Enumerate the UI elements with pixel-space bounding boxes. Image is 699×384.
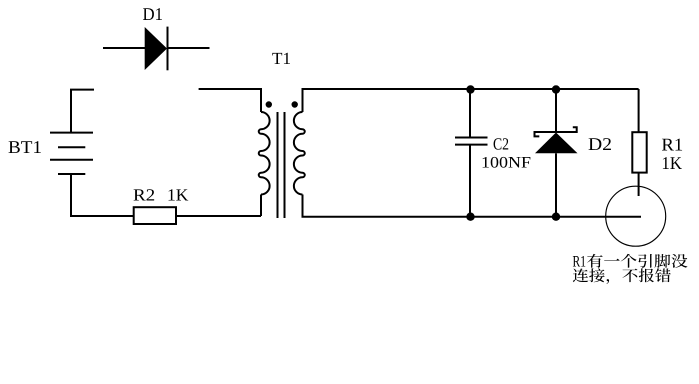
wire C2 top lead: [469, 89, 471, 138]
wire transformer primary top lead: [199, 89, 261, 112]
junction dot C2 bottom: [466, 213, 474, 221]
capacitor C2 bottom plate: [455, 144, 488, 146]
junction dot D2 bottom: [552, 213, 560, 221]
wire D2 top lead: [555, 89, 557, 132]
wire diode D1 right lead: [168, 47, 210, 49]
transformer T1 secondary winding: [294, 112, 305, 195]
label R1 value 1K: [663, 157, 669, 169]
diode D1 triangle: [145, 27, 167, 70]
highlight circle around R1 unconnected pin: [606, 186, 666, 246]
wire primary winding bottom lead: [260, 195, 262, 217]
transformer core line left: [277, 112, 279, 218]
wire R2 to transformer primary bottom: [176, 215, 261, 217]
transformer polarity dot left: [266, 101, 272, 107]
battery BT1 plate long lower: [50, 159, 93, 161]
annotation note prefix R1: [573, 256, 580, 266]
wire diode D1 left lead: [103, 47, 145, 49]
label R2: [134, 189, 146, 200]
label BT1: [9, 141, 20, 153]
resistor R2 body: [134, 207, 176, 224]
label T1: [272, 53, 282, 64]
zener D2 cathode bar with wings: [535, 127, 577, 136]
label D2: [589, 138, 602, 150]
wire C2 bottom lead: [469, 145, 471, 217]
wire secondary bottom to right: [303, 195, 642, 217]
label D1: [143, 8, 154, 20]
capacitor C2 top plate: [455, 137, 488, 139]
label R1: [662, 139, 674, 151]
wire secondary top to right: [303, 89, 639, 112]
battery BT1 plate short upper: [58, 146, 85, 148]
label C2: [494, 138, 502, 149]
annotation note line 1: 有一个引脚没: [587, 254, 603, 268]
transformer T1 primary winding: [259, 112, 270, 195]
resistor R1 body: [632, 132, 646, 172]
zener D2 triangle: [535, 133, 578, 154]
battery BT1 plate long top: [50, 132, 93, 134]
wire R1 top lead: [638, 89, 640, 132]
transformer polarity dot right: [292, 101, 298, 107]
wire D2 bottom lead: [555, 153, 557, 216]
junction dot D2 top: [552, 85, 560, 93]
diode D1 cathode bar: [167, 27, 169, 71]
label R2 value 1K: [169, 189, 175, 200]
wire battery top stub: [71, 90, 94, 133]
wire R1 bottom lead unconnected: [638, 173, 640, 196]
wire battery bottom to R2: [71, 174, 134, 216]
transformer core line right: [284, 112, 286, 218]
label C2 value 100NF: [483, 157, 489, 168]
junction dot C2 top: [466, 85, 474, 93]
annotation note line 2: 连接，不报错: [573, 268, 588, 282]
battery BT1 plate short lower: [58, 173, 85, 175]
